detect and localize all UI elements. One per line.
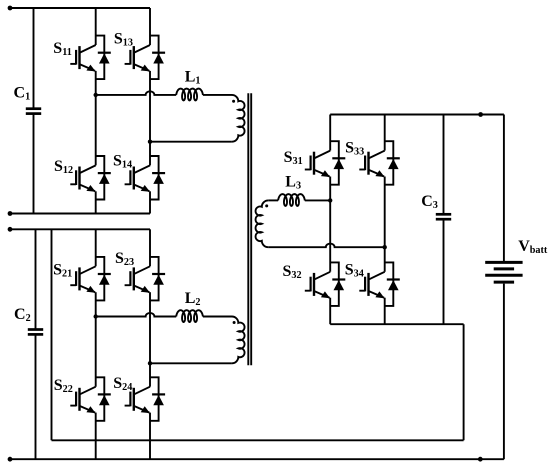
wire: bridge-3 top rail (330, 114, 504, 116)
output terminal dot (top) (478, 112, 483, 117)
capacitor C3 (421, 115, 451, 325)
transformer secondary winding 3 (256, 200, 269, 247)
wire: bridge-3 negative link (right vertical) (463, 324, 465, 440)
input terminal dot (top-left, +Vin1) (8, 6, 13, 11)
wire: bridge-1 bottom rail (10, 213, 150, 215)
capacitor C2 (14, 229, 43, 459)
wire: winding 1 bottom to node B1 (150, 141, 232, 143)
node A1 (S11-S12 midpoint) (94, 93, 98, 97)
wire: L2 to transformer winding 2 (203, 316, 232, 318)
polarity dot winding 3 (265, 204, 268, 207)
IGBT S24 (113, 363, 165, 459)
inductor L3 (278, 174, 305, 206)
IGBT S11 (53, 8, 110, 95)
wire: bridge-2 top rail (10, 228, 150, 230)
IGBT S33 (345, 115, 400, 248)
IGBT S31 (284, 115, 346, 201)
IGBT S23 (115, 229, 165, 363)
wire: bottom rail (bridge-2 negative to battery negative) (10, 458, 504, 460)
wire: bridge-3 bottom rail (330, 323, 463, 325)
node B3 (S33-S34 midpoint) (383, 245, 387, 249)
wire: bridge-3 negative link (horizontal) (52, 439, 464, 441)
polarity dot winding 2 (233, 321, 236, 324)
node B1 (S13-S14 midpoint) (148, 140, 152, 144)
IGBT S12 (54, 95, 111, 214)
IGBT S34 (345, 247, 400, 324)
IGBT S22 (54, 317, 111, 460)
output terminal dot (bottom) (478, 457, 483, 462)
inductor L2 (176, 290, 203, 322)
wire: bridge-3 negative link (left vertical to bridge-2 top rail) (51, 229, 53, 440)
transformer core (248, 93, 251, 365)
IGBT S32 (283, 200, 346, 324)
input terminal dot (bridge-2 positive) (8, 227, 13, 232)
IGBT S21 (53, 229, 111, 316)
wire: L3 to node A3 (305, 199, 330, 201)
wire: winding 2 bottom to node B2 (150, 362, 232, 364)
polarity dot winding 1 (232, 100, 235, 103)
wire: L1 to transformer winding 1 (203, 94, 232, 96)
battery Vbatt (485, 115, 548, 460)
capacitor C1 (14, 8, 42, 214)
inductor L1 (176, 68, 203, 100)
wire: phase A1 line (node A1 to L1, hop over S13 leg) (96, 91, 177, 95)
wire: phase A2 line (node A2 to L2, hop over S23 leg) (96, 313, 177, 317)
input terminal dot (bottom-left, -Vin2) (8, 457, 13, 462)
node A2 (S21-S22 midpoint) (94, 314, 98, 318)
wire: winding 3 bottom to node B3 (hop over S31 leg) (268, 244, 385, 248)
wire: winding 3 top to L3 (268, 199, 278, 201)
node B2 (S23-S24 midpoint) (148, 361, 152, 365)
IGBT S13 (114, 8, 165, 142)
wire: bridge-1 top rail (10, 7, 150, 9)
IGBT S14 (113, 142, 165, 214)
transformer primary winding 1 (232, 95, 245, 142)
transformer primary winding 2 (232, 317, 245, 364)
node A3 (S31-S32 midpoint) (328, 198, 332, 202)
input terminal dot (bridge-1 negative) (8, 211, 13, 216)
